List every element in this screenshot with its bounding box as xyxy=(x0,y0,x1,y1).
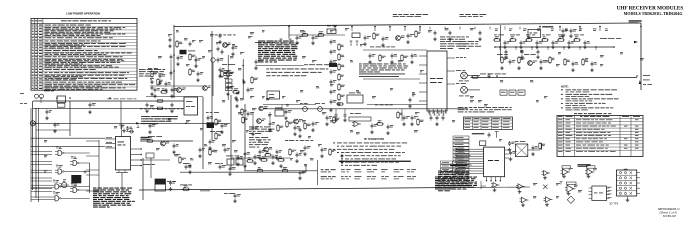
svg-text:MODELS TRD6203G–TRD6204G: MODELS TRD6203G–TRD6204G xyxy=(624,12,683,16)
svg-text:LOW POWER OPERATION: LOW POWER OPERATION xyxy=(66,12,100,16)
svg-text:NOTE:: NOTE: xyxy=(561,86,569,89)
svg-text:RF TRANSISTORS: RF TRANSISTORS xyxy=(364,138,385,141)
svg-text:8/1/83-GP: 8/1/83-GP xyxy=(663,214,676,218)
svg-text:UHF RECEIVER MODULES: UHF RECEIVER MODULES xyxy=(617,6,684,12)
svg-text:3D TP2: 3D TP2 xyxy=(609,202,619,206)
